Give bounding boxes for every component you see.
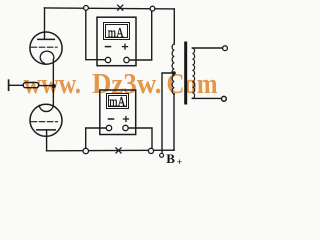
svg-text:mA: mA <box>109 94 125 109</box>
svg-text:B: B <box>166 151 175 166</box>
svg-text:+: + <box>177 158 182 168</box>
svg-text:www.: www. <box>24 68 82 100</box>
svg-text:mA: mA <box>108 25 124 40</box>
